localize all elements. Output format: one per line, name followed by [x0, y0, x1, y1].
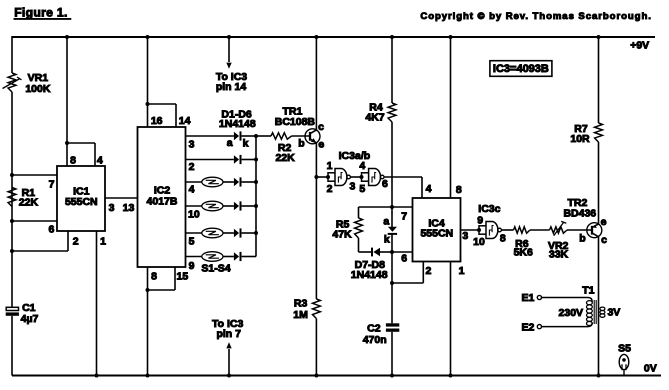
label 47K [332, 229, 352, 241]
node IC1 supply bracket [65, 141, 69, 145]
pin 2 label IC1 [73, 236, 79, 248]
pin 8 label IC2 [151, 270, 157, 282]
svg-text:e: e [318, 138, 324, 150]
wire supply to IC1 pins 8+4 [66, 36, 68, 143]
diode row pin 9 [234, 252, 241, 261]
node IC4 pin7 R5 [390, 205, 394, 209]
svg-text:3: 3 [349, 180, 355, 192]
diode OR bus wire [255, 136, 257, 257]
wire R6 to VR2 [530, 229, 550, 231]
label c TR2 [601, 234, 607, 246]
svg-text:5: 5 [189, 235, 195, 247]
label 230V [559, 307, 584, 319]
svg-text:pin 7: pin 7 [216, 328, 241, 340]
label S5 [618, 343, 631, 355]
label 33K [549, 249, 569, 261]
sensor pad S row pin 4 [202, 177, 223, 187]
svg-text:IC3a/b: IC3a/b [339, 150, 371, 162]
wire IC4 pin1 to 0V [450, 262, 452, 376]
label BD436 [563, 208, 596, 220]
nand gate IC3b [369, 169, 384, 186]
label R1 [22, 187, 36, 199]
svg-text:E1: E1 [521, 292, 534, 304]
label E2 [521, 321, 534, 333]
svg-text:14: 14 [179, 115, 191, 127]
label 22K R1 [19, 196, 39, 208]
svg-text:Figure 1.: Figure 1. [14, 5, 67, 19]
wire diode to bus row pin 9 [242, 256, 256, 258]
capacitor C2 [386, 323, 399, 332]
wire IC3a out to IC3b in [351, 176, 362, 178]
secondary winding T1 3V [600, 307, 605, 317]
node IC2 ground [146, 288, 150, 292]
wire VR2 to TR2 base [567, 229, 591, 231]
label b TR2 [579, 233, 585, 245]
pin 1 label IC3a [327, 160, 333, 172]
pin 3 label IC2 [189, 139, 195, 151]
label D7-D8 [355, 259, 386, 271]
node IC2 supply bracket [146, 102, 150, 106]
svg-text:c: c [318, 121, 324, 133]
svg-text:6: 6 [382, 178, 388, 190]
node IC3a input [326, 175, 330, 179]
wire pin7 node left [359, 206, 393, 208]
svg-text:6: 6 [401, 252, 407, 264]
junction on +9V rail [227, 35, 231, 39]
label 470n [363, 334, 387, 346]
svg-text:pin 14: pin 14 [216, 81, 247, 93]
transistor TR1 [305, 129, 320, 144]
wire sensor to diode row pin 4 [223, 181, 234, 183]
label +9V [630, 40, 649, 52]
svg-text:9: 9 [189, 260, 195, 272]
capacitor C1 [6, 307, 19, 316]
label 4u7 [21, 313, 39, 325]
junction on +9V rail [449, 35, 453, 39]
wire E1 to primary [542, 298, 593, 302]
wire pin2 node to C2 [391, 283, 393, 323]
label 1N4148 D1-D6 [219, 118, 256, 130]
wire R2 to TR1 base [292, 135, 310, 137]
svg-text:3: 3 [109, 202, 115, 214]
label k D1 [243, 138, 249, 150]
pin 1 label IC4 [459, 265, 465, 277]
nand gate IC3a [335, 169, 350, 186]
transistor TR2 [587, 223, 602, 238]
pin 15 label IC2 [177, 270, 189, 282]
input bracket IC3c pins 9 10 [479, 225, 486, 235]
label IC3a/b [339, 150, 371, 162]
pin 9 label IC2 [189, 260, 195, 272]
label D1-D6 [221, 109, 252, 121]
label To IC3 top [216, 71, 247, 83]
label c TR1 [318, 121, 324, 133]
junction diode bus [254, 180, 258, 184]
op IC4 555CN box [413, 198, 461, 262]
label C1 [22, 302, 36, 314]
pin 8 label IC4 [456, 184, 462, 196]
pin 14 label IC2 [179, 115, 191, 127]
label a D8 [383, 216, 389, 228]
wire pin7 node to D8 [391, 207, 393, 227]
pin 13 label IC2 [123, 202, 135, 214]
wire IC2 pin 4 to sensor [186, 181, 202, 183]
label 4K7 [365, 112, 384, 124]
wire R4 to pin7 node [391, 122, 393, 207]
svg-text:10R: 10R [570, 133, 590, 145]
wire supply to IC2 pins 16+14 [147, 36, 149, 104]
label k D8 [384, 233, 390, 245]
label IC1 [73, 186, 90, 198]
wire +9V to R4 [391, 36, 393, 103]
label 10R [570, 133, 590, 145]
wire IC1 pin2 [12, 231, 68, 251]
svg-text:4µ7: 4µ7 [21, 313, 39, 325]
junction on 0V rail [597, 374, 601, 378]
sensor pad S row pin 9 [202, 252, 223, 262]
svg-text:1N4148: 1N4148 [351, 269, 388, 281]
junction diode bus [254, 204, 258, 208]
svg-text:13: 13 [123, 202, 135, 214]
pin 10 label IC3c [473, 236, 485, 248]
resistor R7 [595, 123, 603, 142]
wire pin6 node down to pin2 node [391, 252, 393, 283]
label 0V [644, 362, 657, 374]
svg-text:15: 15 [177, 270, 189, 282]
wire IC4 pin2 [392, 262, 423, 284]
diode row pin 4 [234, 177, 241, 186]
label VR1 [28, 72, 49, 84]
svg-text:3: 3 [189, 139, 195, 151]
svg-text:b: b [579, 233, 585, 245]
label IC3c [478, 203, 500, 215]
pin 9 label IC3c [477, 215, 483, 227]
svg-text:47K: 47K [332, 229, 352, 241]
svg-text:4: 4 [426, 183, 432, 195]
resistor R7 wire from +9V [598, 36, 600, 123]
svg-text:1: 1 [459, 265, 465, 277]
svg-text:0V: 0V [644, 362, 657, 374]
junction on 0V rail [95, 374, 99, 378]
resistor R1 [8, 188, 16, 207]
svg-text:4: 4 [359, 160, 365, 172]
pin 3 label IC3a [349, 180, 355, 192]
wire IC1 pin6 [12, 220, 57, 222]
diode row pin 5 [234, 228, 241, 237]
svg-text:100K: 100K [25, 83, 51, 95]
pin 4 label IC3b [359, 160, 365, 172]
node IC4 pin2 [390, 281, 394, 285]
pin 7 label IC4 [401, 210, 407, 222]
label VR2 [548, 240, 569, 252]
wire IC1 pin1 to 0V [96, 231, 98, 376]
junction diode bus [254, 231, 258, 235]
svg-text:22K: 22K [19, 196, 39, 208]
pin 2 label IC4 [425, 265, 431, 277]
node pin7 junction [10, 173, 14, 177]
svg-text:230V: 230V [559, 307, 584, 319]
wire diode to bus row pin 3 [242, 135, 256, 137]
svg-text:k: k [243, 138, 249, 150]
svg-text:b: b [298, 138, 304, 150]
resistor R6 [514, 227, 531, 233]
wire left rail down to VR1 [11, 36, 13, 73]
wire IC1 pin3 to IC2 pin13 [105, 197, 138, 199]
label 555CN IC1 [65, 196, 98, 208]
svg-text:8: 8 [70, 154, 76, 166]
pin 6 label IC1 [48, 224, 54, 236]
label e TR2 [601, 216, 607, 228]
label a D1 [227, 137, 233, 149]
label R5 [336, 218, 350, 230]
svg-text:BC108B: BC108B [275, 116, 316, 128]
label pin 7 [216, 328, 241, 340]
wire IC2 pin 3 to diode [186, 135, 234, 137]
svg-text:2: 2 [425, 265, 431, 277]
svg-text:10: 10 [473, 236, 485, 248]
wire TR2 collector to T1 and 0V [598, 237, 600, 376]
node pin2 junction [10, 249, 14, 253]
svg-text:5: 5 [359, 183, 365, 195]
wire D7 to pin6 node [380, 251, 392, 253]
diode row pin 10 [234, 201, 241, 210]
svg-text:555CN: 555CN [65, 196, 98, 208]
wire +9V to IC4 pin8 [450, 36, 452, 198]
wire diode to bus row pin 2 [242, 159, 256, 161]
input bracket IC3a pins 1 2 [328, 172, 335, 182]
terminal E1 [537, 295, 541, 299]
svg-text:7: 7 [401, 210, 407, 222]
title Figure 1 [14, 5, 72, 19]
wire IC1 pin7 [12, 174, 57, 176]
diode row pin 2 [234, 155, 241, 164]
wire VR1 to C1 [11, 92, 13, 308]
label TR1 [282, 105, 302, 117]
label E1 [521, 292, 534, 304]
pin 6 label IC4 [401, 252, 407, 264]
label R3 [294, 298, 308, 310]
label 555CN IC4 [420, 228, 453, 240]
bracket IC1 pins 8 4 [67, 143, 95, 166]
pin 4 label IC2 [189, 183, 195, 195]
label R4 [369, 101, 383, 113]
wire diode to bus row pin 4 [242, 181, 256, 183]
svg-text:8: 8 [151, 270, 157, 282]
wire sensor to diode row pin 10 [223, 205, 234, 207]
junction on 0V rail [314, 374, 318, 378]
svg-text:4: 4 [97, 154, 103, 166]
sensor S5 [619, 354, 629, 375]
svg-text:T1: T1 [582, 285, 594, 297]
node IC3c input [477, 228, 481, 232]
pin 1 label IC1 [100, 236, 106, 248]
svg-text:IC3c: IC3c [478, 203, 500, 215]
svg-text:33K: 33K [549, 249, 569, 261]
0V ground rail [12, 375, 661, 377]
label R6 [515, 238, 529, 250]
node IC3b input [360, 175, 364, 179]
label IC2 [154, 184, 171, 196]
preset VR2 [550, 221, 568, 235]
svg-text:S1-S4: S1-S4 [201, 262, 230, 274]
wire IC3b out to IC4 pin4 [384, 177, 422, 198]
terminal E2 [537, 325, 541, 329]
svg-text:E2: E2 [521, 321, 534, 333]
label S1-S4 [201, 262, 230, 274]
wire TR1 collector to +9V [315, 36, 317, 130]
+9V supply rail [12, 36, 655, 38]
svg-text:S5: S5 [618, 343, 631, 355]
svg-text:22K: 22K [275, 152, 295, 164]
junction on +9V rail [65, 35, 69, 39]
primary winding T1 230V [587, 301, 593, 326]
diode row pin 3 [234, 131, 241, 140]
wire IC2 pin 2 to diode [186, 159, 234, 161]
label IC4 [428, 218, 445, 230]
svg-text:1: 1 [100, 236, 106, 248]
wire to IC3 pin 7 arrow [226, 342, 231, 375]
pin 16 label IC2 [151, 115, 163, 127]
label 1N4148 D7-D8 [351, 269, 388, 281]
pin 4 label IC1 [97, 154, 103, 166]
pin 4 label IC4 [426, 183, 432, 195]
bracket IC2 pins 8 15 ground [148, 267, 176, 290]
label b TR1 [298, 138, 304, 150]
diode D8 [388, 227, 397, 234]
pin 5 label IC2 [189, 235, 195, 247]
wire diode to bus row pin 5 [242, 232, 256, 234]
wire C2 to 0V [391, 332, 393, 376]
wire IC4 pin3 to IC3c [461, 229, 480, 231]
svg-text:4K7: 4K7 [365, 112, 384, 124]
resistor R5 [355, 218, 363, 238]
junction on 0V rail [390, 374, 394, 378]
resistor R2 [271, 133, 292, 139]
svg-text:k: k [384, 233, 390, 245]
label To IC3 bottom [212, 318, 243, 330]
svg-text:1N4148: 1N4148 [219, 118, 256, 130]
svg-text:Copyright © by Rev. Thomas Sca: Copyright © by Rev. Thomas Scarborough. [420, 11, 651, 22]
wire IC2 ground to 0V [147, 290, 149, 376]
pin 7 label IC1 [49, 178, 55, 190]
svg-text:a: a [383, 216, 389, 228]
resistor R4 [388, 103, 396, 122]
wire emitter node to IC3a inputs [316, 176, 328, 178]
svg-text:10: 10 [188, 209, 200, 221]
svg-text:+9V: +9V [630, 40, 649, 52]
diode D7 [372, 248, 380, 257]
label R7 [574, 123, 588, 135]
wire to IC3 pin 14 arrow [226, 37, 231, 69]
bracket IC2 pins 16 14 [148, 104, 177, 127]
junction on +9V rail [597, 35, 601, 39]
wire D8 to pin6 node [391, 235, 393, 253]
wire E2 to primary [542, 323, 593, 327]
label pin 14 [216, 81, 247, 93]
pin 2 label IC3a [327, 183, 333, 195]
svg-text:6: 6 [48, 224, 54, 236]
wire R7 to TR2 emitter [598, 142, 600, 224]
label TR2 [567, 197, 587, 209]
wire IC2 pin 5 to sensor [186, 232, 202, 234]
wire diode to bus row pin 10 [242, 205, 256, 207]
svg-text:16: 16 [151, 115, 163, 127]
svg-text:555CN: 555CN [420, 228, 453, 240]
input bracket IC3b pins 4 5 [362, 172, 369, 182]
svg-text:8: 8 [500, 232, 506, 244]
svg-text:BD436: BD436 [563, 208, 596, 220]
label 100K [25, 83, 51, 95]
resistor R3 [313, 299, 321, 319]
potentiometer VR1 [3, 73, 22, 92]
svg-text:C2: C2 [367, 323, 381, 335]
pin 3 label IC1 [109, 202, 115, 214]
wire TR1 emitter down [315, 143, 317, 299]
wire sensor to diode row pin 9 [223, 256, 234, 258]
wire R5 to D7 [359, 238, 372, 252]
pin 2 label IC2 [189, 161, 195, 173]
junction diode bus [254, 134, 258, 138]
svg-text:3: 3 [462, 230, 468, 242]
wire sensor to diode row pin 5 [223, 232, 234, 234]
wire bus to R2 [256, 135, 271, 137]
wire IC3c out to R6 [502, 229, 514, 231]
svg-text:4: 4 [189, 183, 195, 195]
nand gate IC3c [486, 222, 501, 239]
svg-text:1: 1 [327, 160, 333, 172]
wire IC4 pin7 [392, 206, 413, 208]
node TR1 emitter R3 IC3a [314, 175, 318, 179]
node pin6 junction [10, 219, 14, 223]
label 5K6 [514, 247, 533, 259]
label 4017B IC2 [147, 195, 178, 207]
junction on 0V rail [146, 374, 150, 378]
sensor pad S row pin 10 [202, 201, 223, 211]
pin 5 label IC3b [359, 183, 365, 195]
node IC4 pin6 [390, 250, 394, 254]
junction on +9V rail [146, 35, 150, 39]
svg-text:2: 2 [73, 236, 79, 248]
op IC2 4017B box [138, 127, 186, 267]
wire C1 to 0V [11, 316, 13, 376]
wire IC2 pin 9 to sensor [186, 256, 202, 258]
svg-text:2: 2 [327, 183, 333, 195]
pin 3 label IC4 [462, 230, 468, 242]
note box IC3=4093B [490, 61, 552, 77]
label 22K R2 [275, 152, 295, 164]
svg-text:2: 2 [189, 161, 195, 173]
svg-text:e: e [601, 216, 607, 228]
wire IC4 pin6 [392, 251, 413, 253]
op IC1 555CN box [57, 166, 105, 231]
svg-text:5K6: 5K6 [514, 247, 533, 259]
pin 6 label IC3b [382, 178, 388, 190]
svg-text:IC3=4093B: IC3=4093B [493, 63, 549, 75]
junction diode bus [254, 158, 258, 162]
pin 8 label IC1 [70, 154, 76, 166]
junction on +9V rail [390, 35, 394, 39]
svg-text:7: 7 [49, 178, 55, 190]
svg-text:3V: 3V [607, 307, 620, 319]
junction on +9V rail [314, 35, 318, 39]
svg-text:c: c [601, 234, 607, 246]
wire IC2 pin 10 to sensor [186, 205, 202, 207]
svg-text:R3: R3 [294, 298, 308, 310]
label 1M [293, 309, 308, 321]
junction on 0V rail [449, 374, 453, 378]
label C2 [367, 323, 381, 335]
label 3V [607, 307, 620, 319]
